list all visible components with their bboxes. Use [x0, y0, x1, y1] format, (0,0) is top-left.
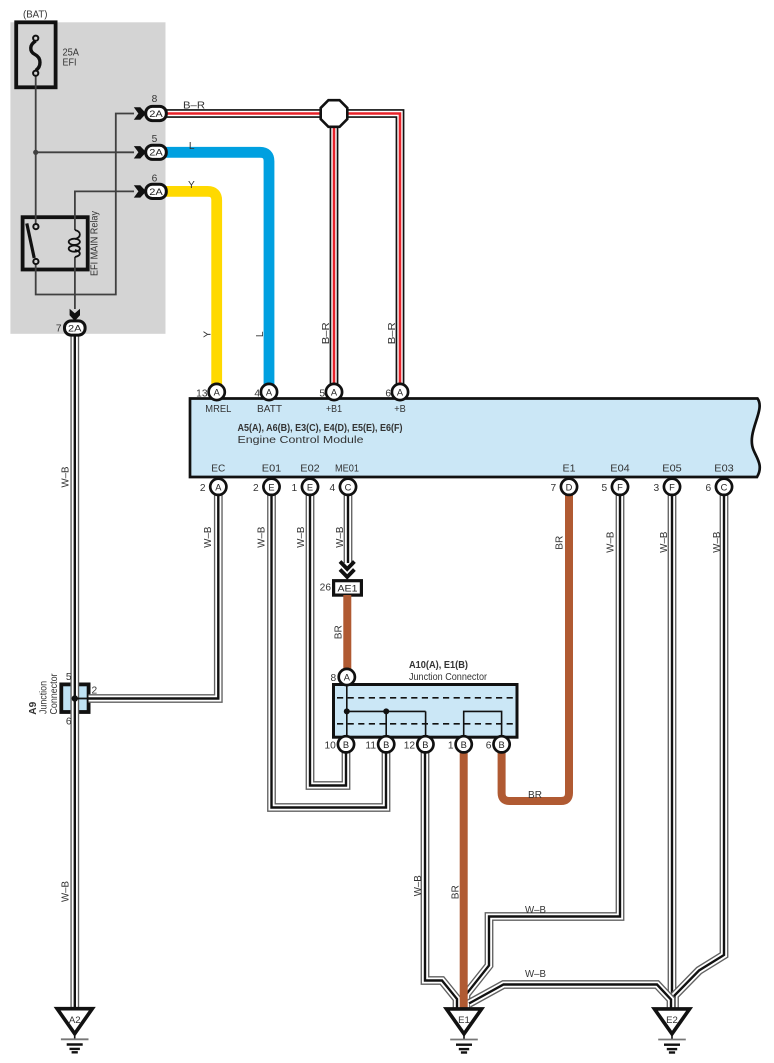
- svg-text:5: 5: [66, 672, 72, 683]
- connector 2A pin 7: [70, 309, 80, 321]
- svg-text:W–B: W–B: [61, 466, 72, 487]
- wire relay coil to connector 7: [74, 257, 76, 309]
- relay block background panel: [10, 22, 165, 334]
- svg-text:W–B: W–B: [525, 905, 546, 916]
- svg-text:W–B: W–B: [413, 875, 424, 896]
- svg-text:2: 2: [253, 483, 259, 494]
- relay switch contact: [27, 223, 34, 258]
- wire B-R connector 8 to +B with corner: [164, 114, 400, 389]
- svg-text:A: A: [344, 673, 351, 683]
- svg-text:E: E: [307, 482, 313, 492]
- svg-text:Connector: Connector: [49, 673, 60, 715]
- svg-text:12: 12: [404, 740, 416, 751]
- svg-text:10: 10: [324, 740, 336, 751]
- relay EFI MAIN Relay box: [23, 217, 88, 269]
- svg-text:Y: Y: [203, 331, 214, 338]
- svg-text:E02: E02: [300, 464, 320, 475]
- node fuse-relay tap: [33, 150, 38, 155]
- wire BR AE1 to junction pin 8: [343, 595, 351, 671]
- fuse 25A EFI box: [16, 22, 55, 87]
- wire Y yellow connector 6 to MREL: [164, 191, 217, 388]
- svg-text:W–B: W–B: [296, 527, 307, 548]
- svg-text:EFI: EFI: [63, 58, 77, 69]
- svg-text:2A: 2A: [149, 187, 163, 197]
- svg-text:2A: 2A: [149, 109, 163, 119]
- svg-text:E04: E04: [610, 464, 630, 475]
- svg-text:F: F: [617, 482, 623, 492]
- fuse element symbol: [31, 41, 40, 71]
- wire BR E1(D) to junction pin 6: [502, 490, 569, 801]
- svg-text:BR: BR: [451, 885, 462, 899]
- svg-text:6: 6: [385, 388, 391, 399]
- svg-text:(BAT): (BAT): [23, 10, 48, 21]
- svg-text:B: B: [383, 740, 389, 750]
- wire W-B ME01 to AE1: [344, 490, 353, 563]
- svg-text:26: 26: [320, 583, 332, 594]
- junction internal bus: [347, 685, 426, 737]
- svg-text:W–B: W–B: [525, 969, 546, 980]
- svg-text:W–B: W–B: [335, 527, 346, 548]
- ECU Engine Control Module box: [190, 399, 760, 478]
- svg-text:8: 8: [331, 673, 337, 684]
- svg-text:A10(A), E1(B): A10(A), E1(B): [409, 660, 468, 671]
- svg-text:4: 4: [254, 388, 260, 399]
- wire fuse to relay switch and tap: [35, 76, 37, 224]
- svg-text:B–R: B–R: [183, 101, 205, 112]
- svg-text:1: 1: [448, 740, 454, 751]
- svg-text:EFI MAIN Relay: EFI MAIN Relay: [90, 210, 101, 276]
- svg-text:B–R: B–R: [321, 322, 332, 344]
- svg-text:2A: 2A: [68, 323, 82, 333]
- wire W-B E01 to junction pin 11: [272, 490, 387, 808]
- svg-text:A5(A), A6(B), E3(C), E4(D), E5: A5(A), A6(B), E3(C), E4(D), E5(E), E6(F): [238, 423, 403, 434]
- svg-text:BR: BR: [333, 625, 344, 639]
- svg-text:W–B: W–B: [61, 881, 72, 902]
- svg-text:7: 7: [551, 483, 557, 494]
- svg-text:E01: E01: [262, 464, 282, 475]
- svg-text:4: 4: [330, 483, 336, 494]
- svg-text:B: B: [343, 740, 349, 750]
- wire W-B EC to junction A9 pin 2: [89, 490, 219, 699]
- svg-text:F: F: [669, 482, 675, 492]
- svg-text:A9: A9: [28, 701, 39, 714]
- wire W-B E03 to ground E2: [675, 490, 725, 1010]
- wire W-B E02 to junction pin 10: [310, 490, 346, 786]
- svg-text:MREL: MREL: [205, 404, 231, 415]
- svg-text:6: 6: [486, 740, 492, 751]
- svg-text:5: 5: [152, 134, 158, 145]
- svg-text:6: 6: [706, 483, 712, 494]
- svg-text:A: A: [331, 388, 338, 398]
- svg-text:C: C: [721, 482, 728, 492]
- svg-text:5: 5: [602, 483, 608, 494]
- svg-text:EC: EC: [211, 464, 225, 475]
- svg-text:1: 1: [292, 483, 298, 494]
- svg-text:8: 8: [152, 94, 158, 105]
- svg-text:BR: BR: [528, 790, 542, 801]
- svg-text:2: 2: [200, 483, 206, 494]
- junction connector A10(A) E1(B) box: [334, 685, 518, 738]
- svg-text:A: A: [397, 388, 404, 398]
- svg-text:A: A: [214, 388, 221, 398]
- connector 2A pin 6: [134, 185, 146, 197]
- splice octagon junction: [321, 100, 348, 127]
- svg-text:2A: 2A: [149, 148, 163, 158]
- svg-text:6: 6: [66, 717, 72, 728]
- wire relay switch to connector 8: [36, 114, 134, 295]
- svg-text:A: A: [266, 388, 273, 398]
- svg-text:AE1: AE1: [338, 584, 358, 594]
- svg-text:E1: E1: [563, 464, 576, 475]
- svg-text:ME01: ME01: [335, 464, 359, 475]
- svg-text:B–R: B–R: [387, 322, 398, 344]
- svg-text:L: L: [189, 141, 195, 152]
- connector AE1 box: [334, 581, 362, 595]
- svg-text:B: B: [461, 740, 467, 750]
- wire W-B E04 to ground E1: [466, 490, 620, 1010]
- wire L blue connector 5 to BATT: [164, 152, 269, 388]
- relay coil: [75, 230, 80, 239]
- ground E1: [446, 1009, 481, 1034]
- svg-text:L: L: [255, 331, 266, 337]
- wire relay coil to connector 6: [75, 191, 134, 230]
- svg-text:E1: E1: [458, 1015, 470, 1026]
- svg-text:Junction Connector: Junction Connector: [409, 672, 488, 683]
- wire W-B junction pin 12 to ground E1: [425, 745, 457, 1010]
- svg-text:11: 11: [365, 740, 376, 751]
- node A9 junction dot: [72, 695, 78, 701]
- svg-text:7: 7: [56, 324, 62, 335]
- ground E2: [654, 1009, 689, 1034]
- svg-text:2: 2: [92, 686, 98, 697]
- node junction dot 2: [383, 708, 389, 714]
- svg-text:W–B: W–B: [659, 532, 670, 553]
- svg-text:W–B: W–B: [712, 532, 723, 553]
- wire W-B ground E1 to ground E2 link: [469, 985, 671, 1011]
- svg-text:E: E: [268, 482, 274, 492]
- svg-text:W–B: W–B: [203, 527, 214, 548]
- svg-text:E03: E03: [714, 464, 734, 475]
- svg-text:W–B: W–B: [606, 532, 617, 553]
- wire W-B main from connector 7 to ground A2: [70, 336, 79, 1010]
- svg-text:+B1: +B1: [326, 404, 342, 415]
- junction connector A9 box: [61, 684, 88, 712]
- node junction dot 1: [344, 708, 350, 714]
- svg-text:5: 5: [319, 388, 325, 399]
- svg-text:D: D: [566, 482, 573, 492]
- svg-text:A2: A2: [69, 1015, 81, 1026]
- svg-text:A: A: [215, 482, 222, 492]
- wire W-B E05 to ground E2: [668, 490, 677, 1010]
- ground A2: [57, 1009, 92, 1034]
- wire B-R octagon branch to +B1: [330, 120, 339, 388]
- svg-text:B: B: [498, 740, 504, 750]
- svg-text:W–B: W–B: [256, 527, 267, 548]
- svg-text:E2: E2: [666, 1015, 678, 1026]
- svg-text:+B: +B: [394, 404, 406, 415]
- svg-text:B: B: [422, 740, 428, 750]
- svg-text:3: 3: [654, 483, 660, 494]
- svg-text:Y: Y: [188, 180, 195, 191]
- connector 2A pin 5: [134, 146, 146, 158]
- wire BR junction pin 1 to ground E1: [460, 748, 468, 1010]
- svg-text:C: C: [345, 482, 352, 492]
- svg-text:6: 6: [152, 174, 158, 185]
- svg-text:13: 13: [196, 388, 208, 399]
- svg-text:BATT: BATT: [257, 404, 282, 415]
- svg-text:Engine Control Module: Engine Control Module: [238, 435, 364, 446]
- svg-text:E05: E05: [662, 464, 682, 475]
- wire A9 internal tap: [75, 698, 88, 700]
- wire tap to connector 5: [36, 151, 134, 153]
- connector 2A pin 8: [134, 107, 146, 119]
- connector AE1 chevron arrows: [340, 562, 354, 570]
- svg-text:BR: BR: [554, 536, 565, 550]
